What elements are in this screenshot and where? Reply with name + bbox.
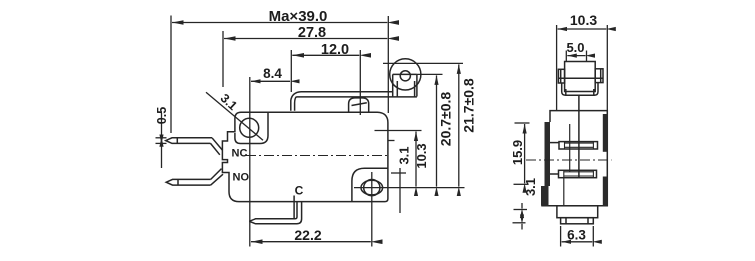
dim Max39.0 extension line left [170, 16, 172, 134]
dim 27.8 extension line left [222, 31, 224, 87]
svg-text:C: C [295, 183, 304, 197]
svg-text:10.3: 10.3 [414, 143, 429, 168]
roller pin tab right [595, 69, 603, 83]
dim 12.0 line [292, 54, 359, 56]
extension line roller top y63.4 [383, 62, 463, 64]
dim 8.4 line [251, 80, 290, 82]
internal line 3 [563, 178, 565, 206]
dim 10.3 vertical line [415, 132, 417, 187]
dim 10.3 end ext right [606, 25, 608, 111]
NC blade crimp [176, 138, 178, 144]
hinge hole [240, 118, 259, 137]
svg-text:8.4: 8.4 [263, 66, 282, 81]
mounting hole circle [364, 180, 380, 196]
reference line through hinge center (8.4 + 22.2) [249, 77, 251, 247]
lower blade tick [550, 173, 559, 175]
black strip left lower [541, 186, 549, 206]
dim 20.7 vertical line [436, 75, 438, 186]
dim 27.8 line [224, 38, 387, 40]
dim Max39.0 line [172, 22, 387, 24]
svg-text:21.7±0.8: 21.7±0.8 [461, 78, 477, 133]
svg-text:Ma×39.0: Ma×39.0 [269, 8, 328, 25]
dim 21.7 vertical line [458, 64, 460, 186]
dim 3.1 end ticks [514, 209, 528, 211]
lever left hook inner [295, 97, 297, 111]
svg-text:15.9: 15.9 [510, 140, 525, 165]
small tick right edge y140.5 [388, 140, 394, 142]
mounting hole boss [352, 168, 388, 201]
roller bracket [393, 74, 417, 96]
C terminal inner edge [293, 196, 295, 219]
roller pin hole [400, 71, 410, 81]
dim 22.2 line [251, 241, 371, 243]
dim 5.0 ext lines [565, 51, 567, 62]
bracket sides [562, 83, 598, 95]
roller end view rect [565, 62, 596, 92]
end view body outline [542, 111, 607, 206]
black strip left upper [545, 122, 551, 186]
dim 0.5 arrows [161, 113, 163, 137]
C terminal inner [249, 202, 297, 222]
plunger dome [349, 98, 369, 112]
body horizontal centerline dash-dot [246, 155, 390, 157]
lever left hook outer [291, 92, 301, 111]
svg-text:0.5: 0.5 [155, 107, 169, 124]
NO terminal blade [166, 179, 211, 185]
extension line at y130.5 for 10.3 [375, 130, 422, 132]
dim 6.3 line [562, 241, 593, 243]
svg-text:3.1: 3.1 [523, 178, 538, 196]
roller pin tab left [558, 69, 564, 83]
svg-text:NC: NC [232, 148, 248, 160]
end view upper blade [559, 142, 598, 149]
roller bracket inner lines [397, 81, 414, 97]
NC lead diagonals [211, 138, 223, 155]
dim 12.0 extension line right (through plunger) [359, 50, 361, 115]
svg-text:20.7±0.8: 20.7±0.8 [438, 92, 454, 147]
NO blade crimp [177, 179, 179, 185]
dim 15.9 ticks [515, 122, 530, 124]
svg-text:5.0: 5.0 [566, 40, 584, 55]
svg-text:12.0: 12.0 [321, 42, 349, 58]
bottom cap [557, 206, 598, 218]
dim 10.3 end line [558, 28, 607, 30]
C terminal outer [249, 202, 301, 224]
svg-text:3.1: 3.1 [397, 146, 412, 164]
extension line roller center y74.4 [417, 73, 443, 75]
dim 10.3 end ext left [556, 25, 558, 111]
lever stem and internal plunger line [578, 95, 580, 178]
svg-text:3.1: 3.1 [218, 91, 240, 113]
upper blade tick [550, 142, 559, 144]
dim 15.9 line [524, 124, 526, 183]
roller circle [390, 59, 421, 90]
svg-text:NO: NO [233, 172, 250, 184]
svg-text:6.3: 6.3 [567, 228, 586, 243]
hinge hole leader 3.1 [206, 92, 263, 140]
dim 0.5 ticks [156, 137, 167, 139]
lever bottom line [297, 96, 417, 98]
black strip right upper [603, 114, 608, 152]
NO lead diagonals [211, 169, 223, 186]
bottom blade bar [561, 218, 594, 224]
mounting hole ellipse [361, 180, 383, 195]
bracket inner verticals [566, 89, 594, 95]
end view lower blade [559, 170, 597, 177]
roller pin line [558, 77, 603, 79]
svg-text:10.3: 10.3 [570, 12, 597, 28]
dim 12.0 extension line left [290, 50, 292, 92]
hinge boss plate bottom and right [235, 112, 268, 143]
svg-text:22.2: 22.2 [294, 227, 321, 243]
internal line 2 [569, 124, 571, 172]
NC terminal blade [166, 138, 212, 144]
mounting hole horizontal centerline [354, 187, 465, 189]
end view centerline dash-dot [526, 159, 612, 161]
mounting hole vertical centerline [371, 172, 373, 247]
dim Max39.0 extension line right / body right extension [387, 16, 389, 113]
dim 3.1 end arrows [521, 203, 523, 209]
dim 6.3 ext lines [560, 226, 562, 247]
switch body outline [222, 112, 388, 201]
svg-text:27.8: 27.8 [298, 25, 326, 41]
lever top line [301, 91, 393, 93]
plunger inner line [352, 103, 367, 106]
dim 3.1 right: vertical line + tick [399, 168, 401, 213]
black strip right lower [603, 177, 608, 206]
dim 5.0 line [567, 55, 585, 57]
